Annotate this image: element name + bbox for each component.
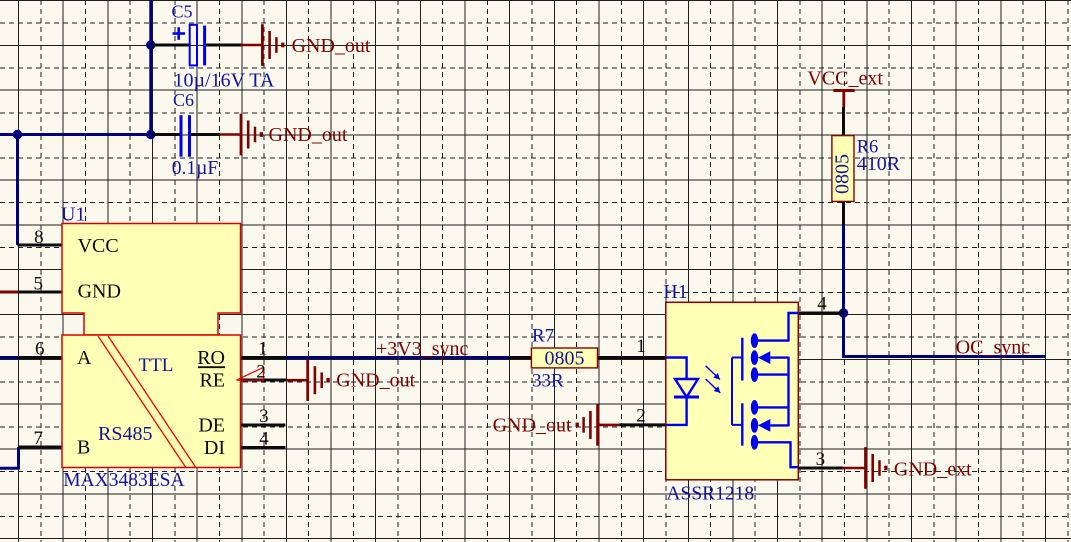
svg-text:2: 2	[256, 362, 266, 383]
svg-text:TTL: TTL	[139, 355, 174, 376]
svg-text:8: 8	[34, 227, 44, 248]
svg-text:7: 7	[34, 428, 44, 449]
svg-text:3: 3	[259, 406, 269, 427]
svg-text:VCC_ext: VCC_ext	[807, 68, 883, 90]
svg-text:C6: C6	[173, 90, 194, 110]
svg-text:1: 1	[258, 339, 268, 360]
svg-text:ASSR1218: ASSR1218	[666, 484, 754, 505]
svg-text:GND_ext: GND_ext	[894, 459, 972, 481]
svg-text:B: B	[77, 437, 90, 459]
svg-text:U1: U1	[61, 204, 85, 226]
svg-text:RE: RE	[199, 370, 225, 392]
svg-text:1: 1	[636, 336, 646, 357]
svg-text:DI: DI	[204, 437, 225, 459]
svg-text:0805: 0805	[832, 154, 854, 194]
svg-text:RS485: RS485	[98, 423, 152, 445]
svg-text:2: 2	[636, 406, 646, 427]
svg-text:0805: 0805	[545, 347, 585, 369]
svg-text:RO: RO	[197, 347, 225, 369]
svg-text:5: 5	[34, 274, 44, 295]
svg-text:R7: R7	[532, 326, 554, 347]
svg-text:GND_out: GND_out	[292, 35, 371, 57]
svg-text:GND_out: GND_out	[269, 124, 348, 146]
svg-text:10µ/16V TA: 10µ/16V TA	[174, 70, 275, 92]
svg-text:DE: DE	[198, 415, 225, 437]
svg-text:3: 3	[816, 449, 826, 470]
svg-text:GND_out: GND_out	[336, 370, 415, 392]
svg-text:H1: H1	[663, 281, 687, 303]
svg-text:A: A	[77, 347, 92, 369]
svg-text:+3V3_sync: +3V3_sync	[376, 338, 469, 360]
svg-text:4: 4	[259, 429, 269, 450]
svg-text:VCC: VCC	[78, 235, 119, 257]
svg-text:C5: C5	[172, 2, 193, 22]
svg-text:410R: 410R	[857, 153, 901, 175]
svg-text:6: 6	[35, 339, 45, 360]
svg-text:MAX3483ESA: MAX3483ESA	[63, 470, 184, 491]
svg-text:0.1µF: 0.1µF	[172, 158, 219, 179]
svg-text:GND_out: GND_out	[493, 415, 572, 437]
svg-text:4: 4	[817, 294, 827, 315]
svg-text:OC_sync: OC_sync	[956, 337, 1031, 359]
svg-text:33R: 33R	[532, 371, 564, 392]
svg-text:GND: GND	[78, 281, 121, 303]
